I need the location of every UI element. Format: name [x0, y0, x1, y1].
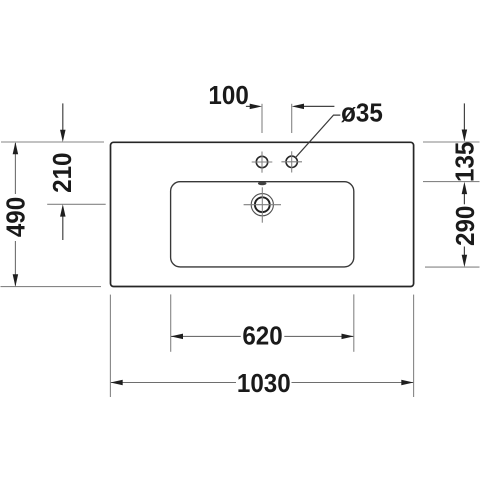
arrow 490 top (up) [13, 142, 19, 154]
leader line for tap hole diameter [295, 115, 340, 158]
inner basin bowl [171, 182, 354, 267]
dimension lines gray [15, 143, 413, 383]
stem 135/290 middle [463, 194, 465, 205]
stem 210 bottom [62, 216, 64, 240]
dim line 620 (broken for text) [171, 335, 241, 337]
arrowheads [13, 104, 468, 386]
ext bottom-right (290 bottom) [425, 266, 480, 268]
tap hole left [256, 156, 267, 167]
arrow 490 bottom (down) [13, 274, 19, 286]
stem 290 bottom [463, 247, 465, 257]
stem 100 left [246, 105, 255, 107]
arrow 1030 right [401, 380, 413, 386]
ext 1030 right [413, 295, 415, 397]
ext 1030 left [109, 295, 111, 397]
dim line 490 (broken for text) [14, 143, 16, 194]
ext 100 left [261, 104, 263, 133]
arrow 210 bottom (up, outside) [60, 204, 66, 216]
ext top-right (135 top) [423, 141, 480, 143]
ext 100 right [291, 104, 293, 133]
arrow 620 right [342, 334, 354, 340]
stem 210 top [62, 103, 64, 131]
extension lines [1, 104, 480, 397]
tap hole left crosshair [252, 152, 273, 173]
svg-text:210: 210 [48, 153, 77, 193]
washbasin outer rim (top view) [111, 142, 414, 286]
arrow 100 left (right-pointing) [250, 104, 262, 110]
stem 135 top [463, 103, 465, 131]
dim line 1030 (broken for text) [111, 382, 236, 384]
arrow 135 top (down) [462, 130, 468, 142]
svg-text:ø35: ø35 [341, 99, 383, 128]
svg-text:290: 290 [451, 206, 480, 246]
drain bold circle [255, 197, 270, 212]
arrow 210 top (down, outside) [60, 130, 66, 142]
drain outer circle [251, 194, 273, 216]
svg-text:490: 490 [2, 197, 31, 237]
svg-text:135: 135 [451, 142, 480, 182]
ext drain level (210 bottom) [47, 203, 105, 205]
ext mid-right (135/290) [423, 181, 480, 183]
arrow 1030 left [110, 380, 122, 386]
tap hole right crosshair [281, 151, 302, 172]
stem 100 right [302, 105, 334, 107]
arrow 620 left [171, 334, 183, 340]
svg-text:100: 100 [208, 81, 248, 110]
svg-text:1030: 1030 [237, 369, 291, 398]
dark arrow stems [63, 103, 465, 256]
ext bottom-left (490 bottom) [1, 286, 102, 288]
arrow 100 right (left-pointing) [292, 104, 304, 110]
arrow 290 bottom (down) [462, 255, 468, 267]
ext top-left (490 top) [1, 141, 104, 143]
arrow 135/290 middle (up) [462, 182, 468, 194]
overflow slot [258, 182, 267, 185]
tap hole right [286, 156, 297, 167]
svg-text:620: 620 [242, 322, 282, 351]
ext 620 right [353, 294, 355, 351]
ext 620 left [170, 294, 172, 351]
drain crosshair [244, 187, 281, 222]
